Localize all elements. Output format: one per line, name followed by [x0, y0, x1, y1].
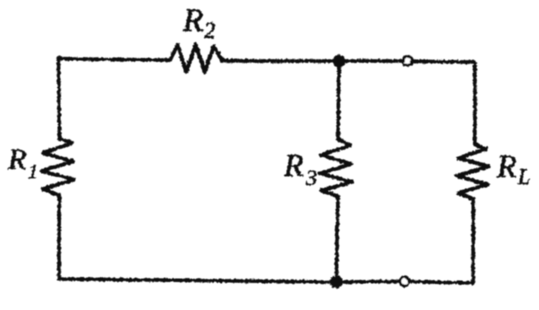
wire top-left segment	[59, 59, 171, 61]
svg-text:3: 3	[305, 165, 317, 190]
wire top-right segment	[413, 59, 475, 63]
resistor R1	[42, 139, 74, 196]
svg-text:2: 2	[204, 18, 216, 43]
terminal: bottom open circle	[400, 277, 409, 286]
wire middle vertical lower	[337, 196, 339, 282]
wire right vertical lower	[471, 199, 475, 283]
wire top middle (R2 to node)	[223, 59, 335, 63]
terminal: top open circle	[403, 56, 412, 65]
wire bottom-right segment	[410, 282, 474, 284]
svg-text:1: 1	[28, 161, 38, 183]
wire left vertical upper	[59, 58, 60, 139]
wire left vertical lower	[57, 195, 61, 279]
svg-text:L: L	[517, 164, 530, 189]
wire middle vertical upper	[338, 61, 339, 139]
resistor R3	[320, 139, 353, 196]
resistor R2	[170, 45, 223, 73]
resistor RL	[457, 145, 489, 199]
svg-text:R: R	[182, 3, 203, 39]
svg-text:R: R	[496, 148, 517, 184]
wire bottom middle (node to terminal)	[341, 280, 399, 284]
wire right vertical upper	[473, 62, 477, 145]
wire top (node to terminal)	[344, 59, 402, 63]
node: top junction	[333, 55, 344, 66]
wire bottom-left segment	[59, 279, 332, 282]
node: bottom junction	[331, 276, 342, 287]
svg-text:R: R	[7, 143, 26, 176]
svg-text:R: R	[283, 147, 304, 183]
